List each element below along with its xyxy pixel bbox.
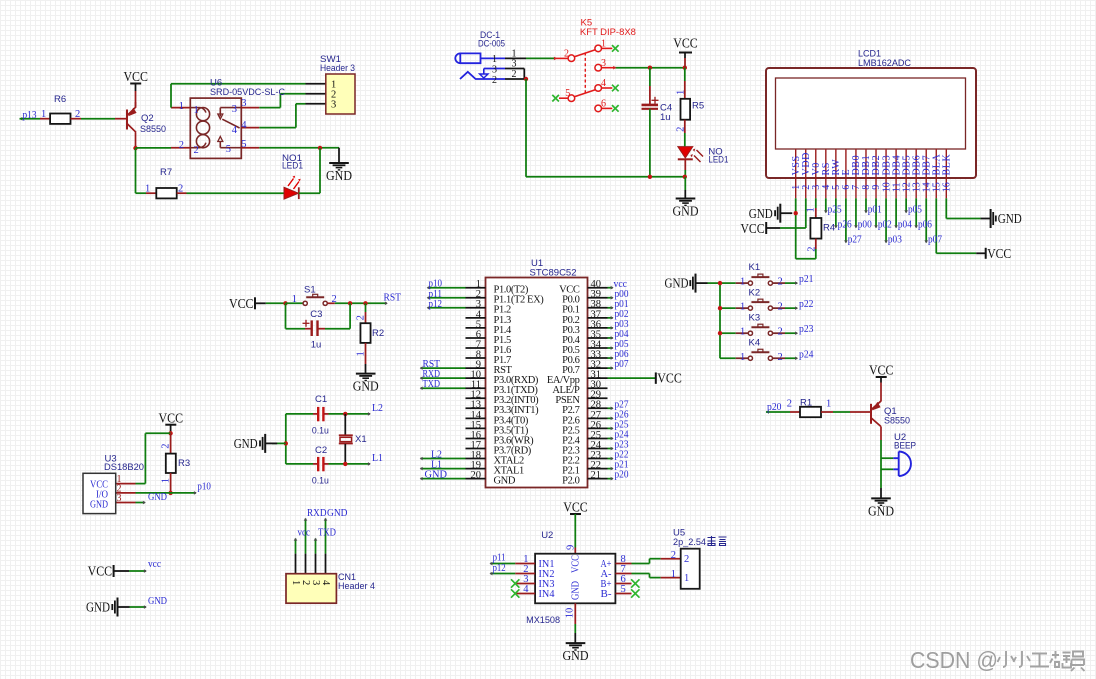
svg-text:LED1: LED1 bbox=[282, 161, 303, 172]
svg-text:p20: p20 bbox=[615, 469, 629, 481]
svg-text:2: 2 bbox=[355, 315, 366, 320]
svg-text:p00: p00 bbox=[858, 219, 872, 231]
svg-text:VCC: VCC bbox=[571, 555, 582, 573]
svg-text:VCC: VCC bbox=[869, 363, 894, 378]
svg-text:GND: GND bbox=[353, 379, 379, 394]
svg-text:3: 3 bbox=[512, 59, 517, 70]
svg-text:1: 1 bbox=[194, 105, 199, 116]
svg-text:2: 2 bbox=[300, 580, 311, 585]
svg-text:p01: p01 bbox=[868, 204, 882, 216]
svg-text:BLK: BLK bbox=[942, 154, 953, 176]
svg-text:4: 4 bbox=[241, 120, 247, 131]
svg-text:VCC: VCC bbox=[673, 36, 698, 51]
svg-text:3: 3 bbox=[601, 58, 606, 69]
svg-text:1: 1 bbox=[355, 351, 366, 356]
svg-text:LED1: LED1 bbox=[708, 155, 728, 166]
svg-text:16: 16 bbox=[942, 182, 953, 192]
svg-text:R7: R7 bbox=[160, 167, 172, 178]
svg-text:VCC: VCC bbox=[741, 221, 765, 236]
svg-text:DC-005: DC-005 bbox=[478, 39, 505, 50]
svg-text:GND: GND bbox=[148, 492, 167, 503]
svg-text:1: 1 bbox=[492, 54, 497, 65]
svg-text:R6: R6 bbox=[54, 94, 66, 105]
svg-text:VCC: VCC bbox=[657, 371, 682, 386]
svg-text:2: 2 bbox=[787, 398, 792, 409]
svg-text:2: 2 bbox=[778, 302, 783, 313]
svg-text:3: 3 bbox=[241, 98, 246, 109]
svg-text:K4: K4 bbox=[749, 337, 761, 348]
svg-text:2: 2 bbox=[178, 184, 183, 195]
svg-text:5: 5 bbox=[565, 88, 570, 99]
svg-text:TXD: TXD bbox=[318, 526, 336, 538]
svg-text:GND: GND bbox=[327, 507, 348, 519]
svg-text:1: 1 bbox=[740, 327, 745, 338]
svg-text:2: 2 bbox=[778, 352, 783, 363]
svg-text:p20: p20 bbox=[767, 401, 782, 413]
svg-text:1: 1 bbox=[160, 478, 171, 483]
svg-text:3: 3 bbox=[331, 100, 336, 111]
svg-text:1: 1 bbox=[145, 184, 150, 195]
svg-text:4: 4 bbox=[523, 584, 529, 595]
svg-text:DS18B20: DS18B20 bbox=[104, 462, 144, 473]
svg-text:GND: GND bbox=[571, 581, 582, 600]
svg-text:4: 4 bbox=[232, 125, 238, 136]
svg-text:SRD-05VDC-SL-C: SRD-05VDC-SL-C bbox=[210, 87, 285, 98]
svg-text:Header 3: Header 3 bbox=[320, 63, 355, 74]
svg-text:2: 2 bbox=[778, 327, 783, 338]
svg-text:1: 1 bbox=[671, 569, 676, 580]
svg-text:Q2: Q2 bbox=[141, 113, 154, 124]
svg-text:2: 2 bbox=[179, 140, 184, 151]
svg-text:p05: p05 bbox=[908, 204, 922, 216]
svg-text:2p_2.54: 2p_2.54 bbox=[673, 537, 706, 548]
svg-text:P2.0: P2.0 bbox=[562, 476, 580, 487]
svg-text:S8550: S8550 bbox=[884, 415, 910, 426]
svg-text:2: 2 bbox=[75, 109, 80, 120]
svg-text:p26: p26 bbox=[838, 219, 852, 231]
svg-text:1: 1 bbox=[740, 352, 745, 363]
svg-text:1u: 1u bbox=[660, 112, 671, 123]
svg-text:1u: 1u bbox=[311, 340, 322, 351]
svg-text:RXD: RXD bbox=[307, 507, 327, 519]
svg-text:p03: p03 bbox=[888, 234, 902, 246]
svg-text:5: 5 bbox=[621, 584, 626, 595]
svg-text:R2: R2 bbox=[372, 328, 384, 339]
svg-text:GND: GND bbox=[90, 500, 108, 511]
svg-text:p27: p27 bbox=[848, 234, 862, 246]
svg-text:2: 2 bbox=[492, 75, 497, 86]
svg-text:1: 1 bbox=[601, 39, 606, 50]
svg-text:GND: GND bbox=[998, 211, 1022, 226]
svg-text:20: 20 bbox=[471, 470, 482, 481]
svg-text:2: 2 bbox=[160, 443, 171, 448]
svg-text:X1: X1 bbox=[355, 434, 367, 445]
svg-text:2: 2 bbox=[807, 246, 818, 251]
svg-text:21: 21 bbox=[591, 470, 602, 481]
svg-text:KFT DIP-8X8: KFT DIP-8X8 bbox=[580, 27, 636, 38]
svg-text:S1: S1 bbox=[304, 285, 316, 296]
svg-text:GND: GND bbox=[86, 600, 110, 615]
svg-text:1: 1 bbox=[740, 277, 745, 288]
svg-text:p10: p10 bbox=[197, 480, 211, 492]
svg-text:0.1u: 0.1u bbox=[312, 425, 329, 436]
svg-text:1: 1 bbox=[740, 302, 745, 313]
svg-text:1: 1 bbox=[806, 207, 817, 212]
svg-text:4: 4 bbox=[320, 580, 331, 586]
svg-text:1: 1 bbox=[675, 90, 686, 95]
svg-text:U2: U2 bbox=[541, 530, 553, 541]
svg-text:9: 9 bbox=[565, 545, 576, 550]
svg-text:2: 2 bbox=[671, 550, 676, 561]
svg-text:GND: GND bbox=[234, 436, 258, 451]
svg-text:GND: GND bbox=[326, 168, 352, 183]
svg-text:VCC: VCC bbox=[159, 410, 184, 425]
svg-text:1: 1 bbox=[684, 573, 689, 584]
svg-text:1: 1 bbox=[292, 294, 297, 305]
svg-text:VCC: VCC bbox=[229, 296, 254, 311]
svg-text:3: 3 bbox=[117, 493, 122, 504]
svg-text:p02: p02 bbox=[878, 219, 892, 231]
svg-text:6: 6 bbox=[601, 99, 606, 110]
svg-text:B-: B- bbox=[601, 589, 613, 600]
svg-text:R5: R5 bbox=[692, 100, 704, 111]
svg-text:2: 2 bbox=[684, 554, 689, 565]
svg-text:vcc: vcc bbox=[298, 526, 311, 538]
svg-text:p12: p12 bbox=[493, 562, 506, 574]
svg-text:p22: p22 bbox=[799, 298, 814, 310]
svg-text:p13: p13 bbox=[23, 109, 37, 121]
svg-text:p04: p04 bbox=[898, 219, 912, 231]
svg-text:3: 3 bbox=[492, 64, 497, 75]
svg-text:C2: C2 bbox=[315, 445, 327, 456]
svg-text:GND: GND bbox=[148, 596, 167, 607]
svg-text:5: 5 bbox=[241, 139, 246, 150]
svg-text:3: 3 bbox=[310, 580, 321, 585]
svg-text:R3: R3 bbox=[178, 458, 190, 469]
svg-text:2: 2 bbox=[512, 69, 517, 80]
svg-text:2: 2 bbox=[675, 127, 686, 132]
svg-text:1: 1 bbox=[179, 101, 184, 112]
svg-text:p06: p06 bbox=[918, 219, 932, 231]
svg-text:K3: K3 bbox=[749, 312, 761, 323]
svg-text:K1: K1 bbox=[749, 262, 761, 273]
svg-text:4: 4 bbox=[601, 78, 606, 89]
svg-text:GND: GND bbox=[868, 503, 894, 518]
svg-text:RST: RST bbox=[384, 291, 402, 303]
svg-text:C1: C1 bbox=[315, 394, 327, 405]
svg-text:LMB162ADC: LMB162ADC bbox=[858, 58, 911, 69]
svg-text:1: 1 bbox=[290, 580, 301, 585]
svg-text:R1: R1 bbox=[800, 397, 812, 408]
svg-text:VCC: VCC bbox=[563, 500, 588, 515]
svg-text:2: 2 bbox=[564, 48, 569, 59]
svg-text:IN4: IN4 bbox=[539, 589, 556, 600]
svg-text:2: 2 bbox=[332, 294, 337, 305]
svg-text:TXD: TXD bbox=[423, 378, 441, 390]
svg-text:p23: p23 bbox=[799, 323, 814, 335]
svg-text:CSDN @: CSDN @ bbox=[910, 647, 998, 673]
svg-text:5: 5 bbox=[226, 144, 231, 155]
svg-text:p21: p21 bbox=[799, 273, 814, 285]
svg-text:3: 3 bbox=[232, 104, 237, 115]
svg-text:1: 1 bbox=[826, 398, 831, 409]
svg-text:L1: L1 bbox=[372, 452, 383, 464]
svg-text:2: 2 bbox=[778, 277, 783, 288]
svg-text:MX1508: MX1508 bbox=[526, 615, 560, 626]
svg-text:vcc: vcc bbox=[148, 559, 161, 570]
svg-text:0.1u: 0.1u bbox=[312, 475, 329, 486]
svg-text:VCC: VCC bbox=[88, 564, 113, 579]
svg-text:p25: p25 bbox=[828, 204, 842, 216]
svg-text:GND: GND bbox=[425, 469, 448, 481]
svg-text:GND: GND bbox=[494, 476, 516, 487]
svg-text:2: 2 bbox=[194, 145, 199, 156]
svg-text:STC89C52: STC89C52 bbox=[530, 268, 577, 279]
svg-text:p12: p12 bbox=[429, 298, 443, 310]
svg-text:GND: GND bbox=[749, 206, 773, 221]
svg-text:L2: L2 bbox=[372, 402, 383, 414]
svg-text:GND: GND bbox=[673, 203, 699, 218]
svg-text:VCC: VCC bbox=[123, 69, 148, 84]
svg-text:R4: R4 bbox=[823, 223, 835, 234]
svg-text:Header 4: Header 4 bbox=[338, 581, 375, 592]
svg-text:p07: p07 bbox=[928, 234, 942, 246]
svg-text:10: 10 bbox=[564, 608, 575, 619]
svg-text:S8550: S8550 bbox=[140, 124, 166, 135]
svg-text:p07: p07 bbox=[615, 358, 629, 370]
svg-text:BEEP: BEEP bbox=[894, 440, 916, 451]
svg-text:1: 1 bbox=[41, 109, 46, 120]
svg-text:GND: GND bbox=[665, 276, 689, 291]
svg-text:VCC: VCC bbox=[987, 246, 1011, 261]
svg-text:p24: p24 bbox=[799, 348, 814, 360]
svg-text:GND: GND bbox=[563, 648, 589, 663]
svg-text:C3: C3 bbox=[310, 309, 322, 320]
svg-text:K2: K2 bbox=[749, 287, 761, 298]
